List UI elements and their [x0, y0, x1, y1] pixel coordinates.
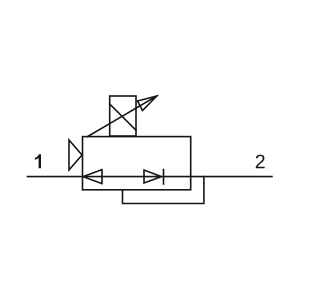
- node 1 label: [35, 154, 41, 168]
- node 2 label: [256, 155, 265, 169]
- adjustment arrowhead: [138, 96, 157, 111]
- proportional solenoid U1 (pilot box): [110, 96, 136, 136]
- bypass wire: [123, 177, 204, 204]
- check valve seat: [163, 170, 165, 185]
- pilot nozzle triangle: [69, 140, 82, 170]
- solenoid coil diagonal: [110, 104, 136, 130]
- port 1 line: [28, 176, 83, 178]
- check valve arrow: [144, 170, 162, 183]
- left flow arrow: [83, 170, 102, 184]
- valve body (main box): [83, 137, 191, 190]
- adjustment arrow shaft: [88, 96, 157, 137]
- internal flow line: [83, 176, 191, 178]
- port 2 line: [191, 176, 272, 178]
